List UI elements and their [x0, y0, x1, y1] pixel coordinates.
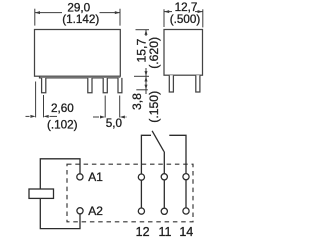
- svg-text:3,8: 3,8: [130, 93, 144, 110]
- svg-text:(.620): (.620): [147, 37, 161, 69]
- svg-text:A2: A2: [88, 204, 103, 218]
- svg-text:2,60: 2,60: [51, 102, 74, 115]
- svg-text:A1: A1: [88, 170, 103, 184]
- svg-text:(.500): (.500): [170, 13, 201, 26]
- svg-text:(.102): (.102): [47, 118, 78, 131]
- svg-text:5,0: 5,0: [106, 117, 123, 130]
- svg-text:12: 12: [136, 225, 150, 239]
- svg-text:(.150): (.150): [147, 91, 161, 123]
- svg-text:11: 11: [159, 225, 172, 239]
- svg-text:(1.142): (1.142): [62, 13, 99, 26]
- svg-text:14: 14: [179, 225, 193, 239]
